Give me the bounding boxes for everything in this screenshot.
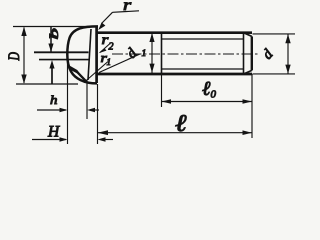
r2 leader stub — [100, 44, 110, 53]
thread minor top — [162, 38, 244, 40]
D dimension line — [23, 28, 25, 84]
b arrow lower — [49, 60, 54, 69]
l0 arrow right — [243, 99, 253, 104]
l0 arrow left — [162, 99, 172, 104]
h arrow left — [60, 108, 68, 112]
H arrow left — [60, 137, 68, 141]
D bottom extension line — [16, 83, 78, 85]
thread minor bottom — [162, 68, 244, 70]
svg-text:1: 1 — [142, 49, 147, 59]
H dimension line left — [32, 139, 66, 141]
b lower shaft — [51, 64, 53, 84]
d1 arrow top — [149, 33, 154, 42]
b arrow upper — [48, 44, 53, 53]
apex extension line — [67, 57, 69, 144]
head face extension line — [97, 84, 99, 144]
D arrow top — [21, 27, 26, 36]
d1 dimension line — [151, 34, 153, 74]
d1 arrow bottom — [149, 64, 154, 73]
shank top outline — [96, 31, 252, 34]
end extension line — [251, 74, 253, 138]
h dimension line right tail — [90, 109, 99, 111]
H arrow right — [98, 137, 106, 141]
d arrow bottom — [285, 65, 290, 74]
mid diagonal leader — [84, 62, 108, 83]
l dimension line — [98, 132, 252, 134]
slot top line — [34, 51, 89, 53]
D top extension line — [13, 26, 95, 28]
d extension top — [253, 33, 296, 35]
long diagonal leader — [99, 54, 140, 73]
head dome arc — [67, 26, 98, 83]
d arrow top — [285, 34, 290, 43]
svg-text:ℓ: ℓ — [175, 110, 187, 137]
chamfer line — [243, 33, 245, 74]
d dimension line — [287, 35, 289, 74]
l0 dimension line — [162, 101, 252, 103]
svg-text:h: h — [50, 94, 57, 108]
arrow shaft — [77, 72, 86, 81]
l arrow left — [98, 130, 109, 135]
slot bottom line — [39, 59, 89, 61]
svg-text:0: 0 — [211, 89, 217, 101]
svg-text:D: D — [5, 52, 22, 61]
svg-text:d: d — [260, 46, 277, 63]
svg-text:H: H — [47, 124, 60, 141]
chamfer bottom diagonal — [244, 70, 252, 74]
chamfer top diagonal — [244, 33, 252, 37]
svg-text:d: d — [124, 45, 141, 62]
thread start line — [161, 33, 163, 74]
r leader underline — [113, 11, 140, 13]
arrow to dome lower-left — [68, 65, 81, 76]
r leader diagonal — [102, 12, 113, 23]
thread start extension line — [161, 74, 163, 107]
head face — [95, 27, 98, 83]
l arrow right — [243, 130, 253, 135]
svg-text:2: 2 — [109, 42, 114, 53]
b dimension line upper — [50, 27, 52, 52]
centerline — [112, 53, 260, 55]
svg-text:b: b — [47, 28, 61, 39]
end line — [251, 36, 253, 70]
shank bottom outline — [96, 73, 252, 76]
h dimension line left — [37, 109, 66, 111]
slot bottom vertical line — [88, 29, 91, 80]
r2 arrowhead — [99, 48, 107, 53]
H dimension line right tail — [101, 139, 113, 141]
d extension bottom — [253, 73, 296, 75]
h arrow right — [87, 108, 95, 112]
svg-text:r: r — [123, 0, 132, 14]
r arrowhead — [98, 22, 105, 30]
slot depth extension line — [86, 80, 88, 119]
D arrow bottom — [21, 75, 26, 84]
